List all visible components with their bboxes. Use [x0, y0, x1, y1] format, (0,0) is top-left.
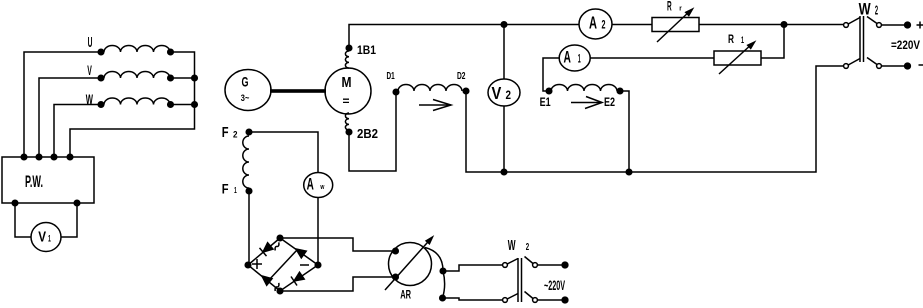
node bridge left [245, 262, 251, 268]
node box terminal 3 [51, 154, 57, 160]
wire winding return bus [70, 52, 195, 157]
node 2B2 [346, 129, 352, 135]
label E2 [604, 96, 615, 109]
svg-text:V: V [492, 84, 502, 103]
arrow D winding [419, 100, 451, 111]
svg-text:R: R [728, 32, 734, 46]
label E1 [540, 96, 551, 109]
label V [87, 62, 92, 78]
svg-text:V: V [87, 62, 92, 78]
node AR input top [393, 248, 399, 254]
node F1 [246, 188, 252, 194]
winding W [98, 98, 173, 107]
node bridge top [277, 235, 283, 241]
svg-text:r: r [679, 4, 682, 12]
label 1B1 [357, 44, 376, 57]
svg-text:D2: D2 [457, 71, 466, 82]
wire AR wiper curve [425, 248, 445, 299]
wire R1 to junction [761, 25, 784, 59]
wire Rr to switch [699, 24, 844, 26]
label R1 [728, 32, 744, 46]
wire switch to minus terminal [882, 65, 906, 67]
wire V2 bottom lead [503, 106, 505, 172]
svg-text:E1: E1 [540, 96, 551, 109]
node F2 [246, 129, 252, 135]
node AR output top [440, 268, 446, 274]
wire A1 to R1 [590, 57, 714, 59]
svg-text:2: 2 [875, 3, 878, 18]
svg-text:2: 2 [233, 130, 238, 141]
ammeter A1 [559, 45, 590, 71]
svg-text:1B1: 1B1 [357, 44, 376, 57]
node box bottom left [12, 200, 18, 206]
node AR input bottom [393, 274, 399, 280]
label =220V [891, 38, 921, 52]
wire bridge bottom to AR [280, 277, 395, 291]
svg-text:2B2: 2B2 [357, 126, 378, 141]
label W2 AC switch [508, 238, 529, 254]
bridge rectifier [248, 238, 318, 291]
node box terminal 1 [21, 154, 27, 160]
node minus terminal [905, 63, 911, 69]
brush coil 1B1 [345, 51, 349, 68]
svg-text:W: W [859, 1, 871, 19]
svg-text:U: U [88, 35, 93, 51]
svg-text:2: 2 [602, 19, 606, 32]
voltmeter V1 [31, 223, 61, 252]
label D2 [457, 71, 466, 82]
autotransformer AR [385, 237, 433, 290]
label D1 [387, 71, 395, 82]
svg-text:R: R [667, 0, 672, 14]
svg-text:F: F [222, 182, 229, 197]
wire switch to AC top terminal [538, 264, 563, 266]
rheostat R1 [714, 42, 761, 74]
switch W2 DC double-pole [844, 16, 882, 68]
switch W2 AC double-pole [503, 257, 538, 303]
svg-text:A: A [564, 48, 571, 66]
shaft coupling [270, 89, 326, 93]
wire V1 right lead [61, 203, 77, 237]
motor M [325, 68, 371, 114]
node plus terminal [905, 22, 911, 28]
wire A1 to E1 [543, 58, 559, 91]
wire D2 to bottom bus [466, 91, 504, 172]
svg-text:A: A [307, 176, 314, 194]
winding D1-D2 [393, 85, 469, 95]
svg-text:2: 2 [506, 89, 512, 102]
label ~220V [544, 278, 565, 293]
wire Aw to bridge [317, 198, 319, 266]
svg-text:=220V: =220V [891, 38, 921, 52]
svg-text:2: 2 [526, 242, 530, 253]
label minus [919, 64, 923, 66]
label Rr [667, 0, 682, 14]
ammeter A2 [579, 9, 612, 39]
label W [86, 91, 94, 107]
node V return junction [192, 75, 198, 81]
node 1B1 [346, 45, 352, 51]
node bottom bus E2 [626, 169, 632, 175]
power source box P.W. [2, 157, 94, 203]
wire U left drop [24, 52, 101, 157]
svg-text:1: 1 [48, 234, 51, 244]
winding U [98, 46, 173, 55]
svg-text:M: M [342, 74, 352, 91]
rheostat Rr [652, 9, 699, 42]
wire V left drop [39, 78, 101, 157]
node box terminal 4 [67, 154, 73, 160]
winding V [98, 72, 173, 81]
svg-text:E2: E2 [604, 96, 615, 109]
brush coil 2B2 [345, 113, 349, 130]
label plus [917, 22, 923, 29]
node AR output bottom [440, 295, 446, 301]
svg-text:1: 1 [578, 51, 581, 65]
label 2B2 [357, 126, 378, 141]
node W return junction [192, 102, 198, 108]
label AR [400, 287, 411, 301]
wire bottom bus [504, 66, 844, 172]
node top bus V2 tap [501, 22, 507, 28]
wire E2 down [620, 91, 629, 172]
wire A2 to Rr [612, 24, 652, 26]
svg-text:A: A [589, 14, 597, 33]
svg-text:F: F [222, 125, 229, 141]
wire V2 top lead [503, 25, 505, 80]
svg-text:AR: AR [400, 287, 411, 301]
svg-text:G: G [242, 75, 249, 90]
label F1 [222, 182, 237, 197]
node bridge right [315, 262, 321, 268]
svg-text:W: W [86, 91, 94, 107]
wire top bus to A2 [504, 24, 579, 26]
wire switch to plus terminal [882, 24, 906, 26]
wire bridge top to AR [280, 238, 395, 251]
label U [88, 35, 93, 51]
label W2 DC switch [859, 1, 879, 19]
field winding F2-F1 [243, 136, 249, 188]
svg-text:1: 1 [741, 35, 744, 46]
wire switch to AC bottom terminal [538, 299, 563, 301]
svg-text:w: w [320, 182, 325, 191]
voltmeter V2 [488, 79, 520, 106]
svg-text:W: W [508, 238, 516, 254]
generator G [225, 70, 271, 111]
svg-text:V: V [38, 230, 46, 246]
label F2 [222, 125, 238, 141]
svg-text:1: 1 [234, 186, 237, 195]
node bridge bottom [277, 288, 283, 294]
wire 2B2 to D1 [349, 92, 396, 171]
node Rr R1 junction [781, 22, 787, 28]
wire AR to AC switch bottom [443, 298, 503, 300]
wire F1 to bridge [248, 191, 250, 265]
svg-text:P.W.: P.W. [25, 173, 43, 191]
node box bottom right [74, 200, 80, 206]
svg-text:3~: 3~ [241, 93, 250, 104]
svg-text:=: = [343, 94, 350, 108]
node bottom bus V2 [501, 169, 507, 175]
node AC bottom terminal [562, 297, 568, 303]
ammeter Aw [304, 173, 333, 198]
svg-text:D1: D1 [387, 71, 395, 82]
wire 1B1 to top bus [349, 25, 504, 49]
arrow E winding [571, 97, 602, 109]
wire V1 left lead [15, 203, 31, 237]
node box terminal 2 [36, 154, 42, 160]
svg-text:~220V: ~220V [544, 278, 565, 293]
wire AR to AC switch top [443, 265, 503, 271]
node AC top terminal [562, 262, 568, 268]
wire F2 to Aw [249, 132, 318, 173]
winding E1-E2 [546, 85, 623, 94]
wire W left drop [54, 105, 101, 158]
